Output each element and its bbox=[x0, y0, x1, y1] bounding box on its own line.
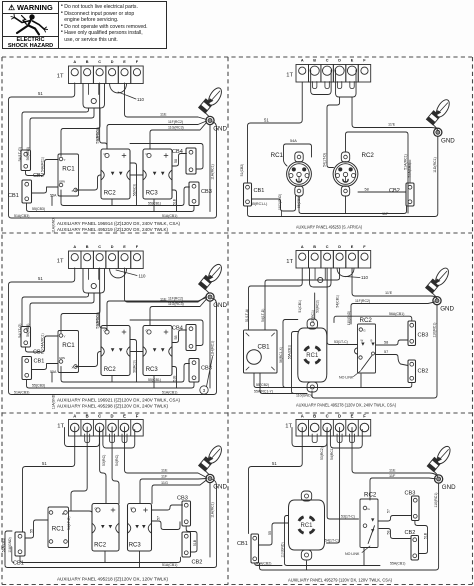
svg-text:1102(GND): 1102(GND) bbox=[278, 194, 282, 210]
wire 51B CB3-CB2 bbox=[186, 527, 197, 553]
wire 54(1T-G) to CB2 bbox=[22, 293, 89, 327]
ground screwdriver icon bbox=[199, 262, 224, 293]
svg-text:1T: 1T bbox=[285, 424, 292, 430]
wire RC2 to RC3 link bbox=[130, 351, 143, 353]
svg-text:58: 58 bbox=[174, 159, 178, 163]
svg-text:51: 51 bbox=[38, 91, 43, 96]
wire 54(1T-D) bbox=[112, 427, 119, 504]
svg-text:54(1T-D): 54(1T-D) bbox=[261, 309, 265, 322]
svg-text:11A(GND): 11A(GND) bbox=[8, 537, 12, 552]
circuit breaker CB1 bbox=[22, 180, 32, 203]
receptacle RC1 (twist-lock) bbox=[301, 491, 311, 501]
wire 54(1T-D) bbox=[327, 97, 340, 168]
svg-text:B: B bbox=[62, 512, 64, 516]
svg-text:GRN: GRN bbox=[59, 356, 65, 360]
wire 55(RC1-L) bbox=[248, 196, 296, 211]
svg-text:B: B bbox=[313, 59, 316, 63]
svg-text:58: 58 bbox=[365, 187, 369, 191]
svg-text:F: F bbox=[136, 60, 139, 64]
svg-text:56(CB4): 56(CB4) bbox=[26, 324, 30, 337]
wire RC3 to CB4 58 bbox=[172, 330, 187, 343]
wire 51 outer loop bbox=[9, 83, 217, 218]
warning header box bbox=[2, 1, 167, 49]
svg-text:RC3: RC3 bbox=[129, 543, 142, 549]
circuit breaker CB3 bbox=[408, 321, 416, 346]
wire 51 bbox=[23, 427, 75, 532]
wire 55 bbox=[259, 523, 289, 545]
svg-text:RC1: RC1 bbox=[52, 526, 65, 533]
svg-text:51(1T-A): 51(1T-A) bbox=[245, 309, 249, 322]
circuit breaker CB2 bbox=[182, 532, 191, 557]
svg-text:AUXILIARY PANEL 495218 ((Z)120: AUXILIARY PANEL 495218 ((Z)120V DX, 120V… bbox=[57, 576, 168, 581]
svg-text:X: X bbox=[72, 366, 74, 370]
svg-text:GND: GND bbox=[213, 302, 227, 309]
svg-text:F: F bbox=[363, 413, 366, 418]
svg-text:56(CB4): 56(CB4) bbox=[26, 147, 30, 160]
svg-text:B: B bbox=[86, 245, 89, 249]
wire 53(1T-C) bbox=[100, 427, 106, 504]
receptacle RC1 (round) bbox=[295, 152, 303, 162]
receptacle RC1 bbox=[48, 507, 69, 548]
svg-text:E: E bbox=[351, 245, 354, 249]
svg-text:RC1: RC1 bbox=[62, 342, 75, 349]
svg-text:B: B bbox=[313, 245, 316, 249]
svg-text:E: E bbox=[123, 60, 126, 64]
svg-text:D: D bbox=[111, 60, 114, 64]
jumper loop A-B bbox=[292, 428, 327, 447]
circuit breaker CB3 bbox=[189, 182, 199, 206]
svg-text:RC1: RC1 bbox=[306, 353, 319, 359]
terminal slot bbox=[85, 434, 90, 443]
svg-text:110: 110 bbox=[361, 275, 369, 280]
svg-text:58: 58 bbox=[387, 531, 391, 535]
svg-text:D: D bbox=[338, 413, 341, 418]
jumper link bbox=[83, 84, 105, 109]
dashed panel border grid bbox=[2, 56, 472, 58]
wire RC1-X to RC2 bbox=[76, 352, 102, 367]
svg-text:11F: 11F bbox=[382, 212, 389, 216]
wire 11F(RC2) bbox=[107, 298, 207, 326]
wire 11G(RC3) bbox=[150, 123, 207, 150]
wire CB4 right bbox=[130, 144, 203, 170]
terminal slot bbox=[350, 82, 354, 89]
svg-text:AUXILIARY PANEL 495253 (S. AFR: AUXILIARY PANEL 495253 (S. AFRICA) bbox=[296, 224, 362, 229]
wire 51 bbox=[248, 82, 303, 183]
wire riser RC3 to rail bbox=[172, 190, 177, 212]
circuit breaker CB3 bbox=[412, 496, 420, 521]
svg-text:55: 55 bbox=[30, 529, 34, 533]
jumper loop C-D-E bbox=[330, 430, 362, 449]
wire 56(CB4) bbox=[30, 108, 94, 150]
circuit breaker CB4 bbox=[186, 325, 196, 351]
wire outer rail bbox=[5, 480, 217, 568]
wire CB4 right bbox=[130, 320, 203, 346]
svg-text:55A(CB1): 55A(CB1) bbox=[288, 345, 292, 359]
ground screw terminal bbox=[206, 293, 214, 301]
wire 53(1T-C) bbox=[327, 268, 357, 345]
svg-text:CB2: CB2 bbox=[418, 369, 429, 375]
wire CB2 to RC1 bbox=[26, 336, 59, 352]
wire 110(GND) bbox=[285, 518, 381, 566]
wire 51A(RC1) bbox=[346, 132, 409, 213]
svg-text:RC2: RC2 bbox=[362, 152, 375, 159]
svg-text:11D(RC1): 11D(RC1) bbox=[433, 157, 437, 173]
wire bottom rail 55(CB1) bbox=[61, 187, 190, 206]
svg-text:C: C bbox=[98, 413, 101, 418]
svg-text:AUXILIARY PANEL 495279 (120V D: AUXILIARY PANEL 495279 (120V DX, 120V TW… bbox=[288, 577, 392, 582]
svg-text:11H(RC1): 11H(RC1) bbox=[211, 502, 215, 518]
svg-text:CB4: CB4 bbox=[172, 149, 183, 155]
wire 11E bbox=[352, 97, 437, 130]
wire 54A bbox=[284, 144, 312, 166]
label 110 with leader bbox=[116, 270, 137, 276]
svg-text:53(RC1): 53(RC1) bbox=[311, 310, 315, 323]
wire 52(RC1) bbox=[61, 293, 100, 333]
svg-text:11A(GND): 11A(GND) bbox=[52, 394, 56, 410]
wire 11A(GND) bbox=[51, 196, 53, 206]
ground screwdriver icon bbox=[199, 86, 224, 117]
wire RC2 bottom to rail bbox=[111, 199, 113, 206]
svg-text:11H(RC1): 11H(RC1) bbox=[211, 164, 215, 180]
circuit breaker CB2 bbox=[21, 327, 31, 348]
svg-text:51: 51 bbox=[38, 276, 43, 281]
jumper link bbox=[83, 269, 105, 294]
wire 51 bbox=[249, 428, 303, 534]
svg-text:51A(CB3): 51A(CB3) bbox=[14, 390, 29, 394]
svg-text:F: F bbox=[136, 245, 139, 249]
svg-text:11G(RC3): 11G(RC3) bbox=[168, 302, 184, 306]
svg-text:54(RC1): 54(RC1) bbox=[330, 447, 334, 460]
wire 55(CB1) bbox=[299, 196, 407, 214]
svg-text:AUXILIARY PANEL 495278 (120V D: AUXILIARY PANEL 495278 (120V DX, 240V TW… bbox=[296, 402, 396, 407]
label 110 with leader bbox=[346, 277, 360, 278]
ground screwdriver icon bbox=[427, 444, 452, 475]
svg-text:56(RC3): 56(RC3) bbox=[133, 360, 137, 372]
svg-text:GND: GND bbox=[442, 484, 456, 491]
receptacle RC1 bbox=[58, 331, 79, 373]
wire 11E bbox=[125, 268, 207, 302]
svg-text:RC3: RC3 bbox=[146, 367, 159, 373]
terminal slot bbox=[325, 82, 329, 89]
wire 11H(RC1) riser bbox=[209, 125, 211, 212]
wire 55A(RC1-Y) rail bbox=[260, 373, 307, 394]
terminal slot bbox=[122, 434, 127, 443]
wire 54(1T-C) bbox=[327, 428, 340, 544]
jumper arc D-E bbox=[337, 268, 354, 277]
svg-text:GND: GND bbox=[213, 484, 227, 491]
svg-text:51A(CB2): 51A(CB2) bbox=[1, 538, 5, 552]
receptacle RC2 bbox=[92, 504, 119, 552]
svg-text:CB3: CB3 bbox=[418, 333, 429, 339]
wire 11F(RC2) bbox=[107, 121, 207, 149]
svg-text:51A(CB1): 51A(CB1) bbox=[408, 163, 412, 178]
svg-text:GRN: GRN bbox=[59, 180, 65, 184]
terminal slot bbox=[337, 434, 342, 443]
wire RC2 bottom to rail bbox=[111, 376, 113, 383]
wire 51 outer loop bbox=[9, 268, 217, 395]
circuit breaker CB1 bbox=[244, 183, 252, 206]
jumper loop C-D-E bbox=[103, 430, 135, 449]
svg-text:55(RC1-L): 55(RC1-L) bbox=[251, 202, 267, 206]
svg-text:51: 51 bbox=[264, 118, 269, 123]
svg-text:D: D bbox=[338, 245, 341, 249]
circuit breaker CB3 bbox=[189, 359, 199, 383]
wire RC2 bottom to rail bbox=[363, 548, 365, 566]
svg-text:55A(CB1): 55A(CB1) bbox=[390, 561, 405, 565]
svg-text:53(RC2): 53(RC2) bbox=[316, 300, 320, 313]
svg-text:56(RC3): 56(RC3) bbox=[133, 184, 137, 196]
wire 55 CB1 to RC1 bbox=[25, 520, 48, 538]
circuit breaker CB2 bbox=[21, 150, 31, 171]
svg-text:11G: 11G bbox=[161, 481, 168, 485]
svg-text:54A: 54A bbox=[290, 139, 297, 143]
svg-text:A: A bbox=[73, 245, 76, 249]
svg-text:53(RC): 53(RC) bbox=[102, 455, 106, 466]
wire 55(CB2) rail bbox=[254, 373, 412, 388]
svg-text:F: F bbox=[136, 413, 139, 418]
wire CB2 to RC1 bbox=[26, 160, 59, 176]
svg-text:53(RC2): 53(RC2) bbox=[320, 447, 324, 460]
svg-text:CB4: CB4 bbox=[172, 326, 183, 332]
svg-text:RC2: RC2 bbox=[104, 191, 117, 197]
svg-text:54(1T-C): 54(1T-C) bbox=[325, 538, 339, 542]
ground screwdriver icon bbox=[426, 98, 451, 129]
wire 11H(RC1) riser bbox=[209, 483, 211, 558]
receptacle RC3 bbox=[143, 326, 172, 376]
svg-text:D: D bbox=[111, 245, 114, 249]
jumper loop A-B bbox=[65, 428, 100, 447]
svg-text:CB1: CB1 bbox=[34, 359, 45, 365]
jumper arc D-E bbox=[110, 269, 127, 278]
terminal slot bbox=[337, 82, 341, 89]
wire 11E bbox=[352, 428, 438, 477]
svg-text:11F: 11F bbox=[389, 474, 396, 478]
svg-text:57: 57 bbox=[157, 516, 161, 520]
svg-text:53(RC2): 53(RC2) bbox=[96, 315, 100, 329]
svg-text:CB2: CB2 bbox=[405, 530, 416, 536]
svg-text:51: 51 bbox=[272, 461, 277, 466]
svg-text:CB2: CB2 bbox=[33, 173, 44, 179]
svg-text:CB2: CB2 bbox=[192, 560, 203, 566]
wire 58 bbox=[358, 191, 406, 193]
svg-text:CB1: CB1 bbox=[254, 188, 265, 194]
svg-text:NO LINK: NO LINK bbox=[339, 376, 354, 380]
svg-text:11E: 11E bbox=[160, 113, 167, 117]
svg-text:E: E bbox=[351, 59, 354, 63]
svg-text:51B: 51B bbox=[173, 375, 177, 382]
svg-text:11G(RC3): 11G(RC3) bbox=[168, 126, 184, 130]
svg-text:B: B bbox=[86, 413, 89, 418]
svg-text:C: C bbox=[98, 60, 101, 64]
wire bottom rail 55(CB1) bbox=[61, 364, 190, 383]
wire bottom rail 55(CB3) bbox=[27, 380, 195, 388]
receptacle RC2 bbox=[358, 324, 376, 373]
svg-text:110: 110 bbox=[137, 97, 145, 102]
svg-text:W: W bbox=[361, 339, 364, 343]
svg-text:11'E: 11'E bbox=[388, 122, 396, 126]
wire RC1 bottom to rail bbox=[306, 561, 308, 570]
wire 52(RC1) bbox=[61, 108, 100, 156]
wire RC1 to RC2 bbox=[69, 511, 93, 513]
svg-text:51A(CB3): 51A(CB3) bbox=[14, 214, 29, 218]
wire 53(RC2) bbox=[100, 83, 107, 149]
jumper arc D-E bbox=[110, 84, 127, 93]
svg-text:B: B bbox=[371, 339, 373, 343]
wire 11F bbox=[140, 479, 207, 504]
ground screwdriver icon bbox=[426, 266, 451, 297]
svg-text:D: D bbox=[338, 59, 341, 63]
note circle 3 bbox=[200, 386, 208, 394]
svg-text:54(1T-G): 54(1T-G) bbox=[67, 516, 71, 530]
svg-text:CB3: CB3 bbox=[405, 491, 416, 497]
ground screwdriver icon bbox=[199, 444, 224, 475]
wire 54(1T-G) to RC1 bbox=[69, 427, 88, 511]
wire 110(RC1) riser bbox=[260, 483, 439, 570]
svg-text:CB2: CB2 bbox=[389, 188, 400, 194]
circuit breaker CB3 bbox=[182, 501, 191, 526]
wire 51(1T-A) bbox=[249, 268, 303, 330]
wire 53(RC2) bbox=[100, 268, 107, 331]
circuit breaker CB2 bbox=[411, 536, 419, 561]
svg-text:D: D bbox=[111, 413, 114, 418]
svg-text:11F(RC2): 11F(RC2) bbox=[355, 299, 370, 303]
svg-text:55A(CB2): 55A(CB2) bbox=[256, 561, 271, 565]
svg-text:A: A bbox=[301, 413, 304, 418]
circuit breaker CB1 bbox=[251, 534, 259, 563]
wire 58 bbox=[376, 340, 409, 345]
svg-text:CB3: CB3 bbox=[177, 496, 188, 502]
wire 11G bbox=[152, 480, 207, 504]
svg-text:GND: GND bbox=[213, 126, 227, 133]
svg-text:54A(RC1): 54A(RC1) bbox=[41, 333, 45, 348]
svg-text:55(CB1): 55(CB1) bbox=[148, 201, 161, 205]
wire 57 bbox=[376, 355, 409, 366]
wire 55A CB1 to RC1 bbox=[32, 187, 59, 193]
wire 11F(RC2) bbox=[351, 302, 435, 324]
svg-text:11A(GND): 11A(GND) bbox=[52, 217, 56, 233]
wire bottom rail 55(CB3) bbox=[27, 204, 195, 212]
wire 53(1T-C) bbox=[327, 428, 358, 520]
wire 51B bbox=[415, 521, 428, 554]
wire 56(CB4) bbox=[30, 293, 94, 327]
wire riser between RC2 and RC3 bbox=[130, 163, 137, 206]
svg-text:G: G bbox=[368, 507, 371, 511]
svg-text:AUXILIARY PANEL 495298 ((Z)120: AUXILIARY PANEL 495298 ((Z)120V DX, 240V… bbox=[57, 404, 168, 409]
wire 11F bbox=[370, 478, 436, 500]
circuit breaker CB1 bbox=[22, 357, 32, 380]
svg-text:AUXILIARY PANEL 196914 ((Z)120: AUXILIARY PANEL 196914 ((Z)120V DX, 240V… bbox=[57, 221, 180, 226]
wire RC2 to RC3 link bbox=[130, 174, 143, 176]
label 110 with leader bbox=[118, 92, 136, 99]
svg-text:1T: 1T bbox=[286, 73, 293, 79]
svg-text:1T: 1T bbox=[57, 258, 64, 264]
jumper loop B-C bbox=[311, 70, 331, 95]
svg-text:CB1: CB1 bbox=[13, 561, 24, 567]
wire 57 bbox=[378, 516, 411, 522]
svg-text:51A(CB1): 51A(CB1) bbox=[162, 563, 177, 567]
svg-text:110(RC1): 110(RC1) bbox=[433, 323, 437, 338]
svg-text:F: F bbox=[363, 59, 366, 63]
receptacle RC2 bbox=[101, 149, 130, 199]
svg-text:GND: GND bbox=[440, 306, 454, 313]
svg-text:RC2: RC2 bbox=[364, 492, 377, 499]
no-link switch line bbox=[362, 355, 373, 370]
svg-text:56A(CB1): 56A(CB1) bbox=[389, 312, 404, 316]
svg-text:A: A bbox=[73, 60, 76, 64]
svg-text:55(CB1): 55(CB1) bbox=[148, 378, 161, 382]
svg-text:CB2: CB2 bbox=[33, 350, 44, 356]
svg-text:53(1T-C): 53(1T-C) bbox=[341, 514, 355, 518]
wire riser between RC2 and RC3 bbox=[130, 340, 137, 383]
svg-text:1T: 1T bbox=[57, 73, 64, 79]
receptacle RC1 (twist-lock) bbox=[307, 319, 317, 329]
svg-text:G: G bbox=[363, 329, 366, 333]
svg-text:RC1: RC1 bbox=[62, 166, 75, 173]
svg-text:1T: 1T bbox=[57, 424, 64, 430]
svg-text:RC2: RC2 bbox=[360, 317, 373, 324]
svg-text:55A(RC1-Y): 55A(RC1-Y) bbox=[254, 389, 273, 393]
ground screw terminal bbox=[433, 297, 441, 305]
wire 110(RC1) riser bbox=[312, 305, 437, 398]
terminal slot bbox=[312, 82, 316, 89]
terminal slot bbox=[110, 434, 115, 443]
svg-text:110(GND): 110(GND) bbox=[296, 394, 312, 398]
wire 53(RC1) bbox=[314, 293, 316, 319]
svg-text:57: 57 bbox=[387, 509, 391, 513]
svg-text:53(1T-C): 53(1T-C) bbox=[334, 340, 348, 344]
svg-text:C: C bbox=[326, 59, 329, 63]
svg-text:3: 3 bbox=[203, 388, 206, 393]
ground screw terminal bbox=[206, 474, 214, 482]
ground screw terminal bbox=[206, 116, 214, 124]
svg-text:11'E: 11'E bbox=[385, 291, 393, 295]
svg-text:110(GND): 110(GND) bbox=[347, 311, 351, 325]
receptacle RC2 (round) bbox=[341, 152, 349, 162]
wire 54(1T-G) to CB2 bbox=[22, 108, 89, 150]
wire RC2 bottom to rail bbox=[104, 551, 106, 563]
svg-text:55A: 55A bbox=[50, 370, 57, 374]
svg-text:B: B bbox=[313, 413, 316, 418]
wire 11D(RC1) riser bbox=[248, 136, 438, 216]
wire 56A(CB1) bbox=[334, 316, 412, 322]
wire 56(RC1-X) bbox=[283, 322, 288, 388]
svg-text:56(RC1-X): 56(RC1-X) bbox=[279, 347, 283, 363]
svg-text:RC1: RC1 bbox=[271, 152, 284, 159]
terminal block 1T bbox=[296, 420, 371, 437]
svg-text:CB1: CB1 bbox=[258, 344, 271, 351]
svg-text:58: 58 bbox=[384, 340, 388, 344]
wire 11G(RC3) bbox=[150, 299, 207, 326]
svg-text:54(RC): 54(RC) bbox=[115, 455, 119, 466]
wire 55A rail bbox=[255, 563, 282, 566]
terminal slot bbox=[350, 434, 355, 443]
svg-text:55(CB3): 55(CB3) bbox=[32, 384, 45, 388]
svg-text:11F(RC2): 11F(RC2) bbox=[168, 297, 183, 301]
terminal slot bbox=[312, 434, 317, 443]
svg-text:11H(RC1): 11H(RC1) bbox=[211, 341, 215, 357]
svg-text:X: X bbox=[72, 189, 74, 193]
svg-text:53(RC2): 53(RC2) bbox=[96, 130, 100, 144]
svg-text:11F(RC2): 11F(RC2) bbox=[168, 120, 183, 124]
svg-text:110(GND): 110(GND) bbox=[281, 542, 285, 557]
circuit breaker CB2 bbox=[406, 183, 414, 206]
svg-text:51B: 51B bbox=[424, 532, 428, 539]
wire 54(1T-D) bbox=[265, 268, 340, 330]
receptacle RC3 bbox=[128, 504, 152, 552]
no-link switch line bbox=[368, 526, 374, 544]
wire RC2 bottom to rail bbox=[360, 374, 362, 388]
svg-text:CB3: CB3 bbox=[201, 189, 212, 195]
